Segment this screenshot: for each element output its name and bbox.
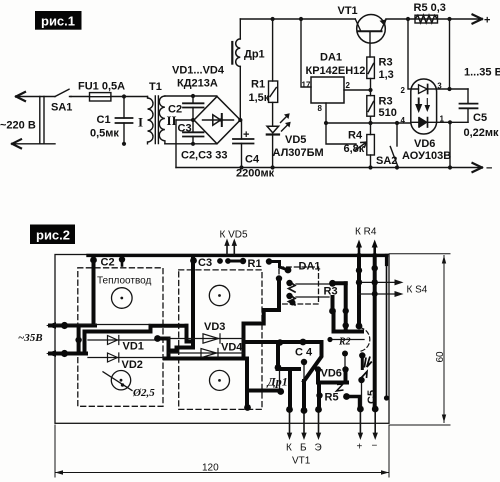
svg-text:Ø2,5: Ø2,5 bbox=[132, 387, 155, 399]
heatsink dashed outline bbox=[78, 268, 163, 407]
svg-text:2: 2 bbox=[401, 86, 406, 95]
resistor R1 bbox=[272, 19, 274, 125]
pad R2 left bbox=[327, 337, 332, 342]
thin rail row bbox=[55, 324, 150, 326]
svg-text:К S4: К S4 bbox=[407, 285, 428, 296]
pad VD6 b bbox=[342, 366, 348, 372]
svg-text:C2: C2 bbox=[168, 103, 182, 115]
trace R1 link bbox=[228, 260, 243, 263]
pad R1 right bbox=[266, 258, 272, 264]
svg-text:R1: R1 bbox=[251, 79, 265, 91]
trace Va column bbox=[357, 255, 361, 326]
pad R3 C bbox=[329, 308, 336, 315]
bottom pin arrow K bbox=[289, 412, 291, 435]
trace C5 stub bbox=[361, 356, 364, 369]
svg-text:Э: Э bbox=[315, 443, 322, 454]
output + arrow bbox=[473, 15, 483, 24]
inductor Dr1 core bar bbox=[231, 42, 233, 64]
pad R3 B bbox=[343, 308, 349, 314]
svg-text:SA2: SA2 bbox=[376, 155, 397, 167]
bridge rectifier VD1...VD4 bbox=[194, 97, 240, 144]
transistor VT1 bbox=[357, 14, 386, 43]
R2 dashed circle bbox=[360, 328, 370, 352]
pad VD6 a bbox=[315, 366, 321, 372]
svg-text:R3: R3 bbox=[379, 57, 393, 69]
capacitor C4 bbox=[241, 120, 243, 168]
svg-text:6,8к: 6,8к bbox=[344, 143, 365, 155]
wire FU1 to T1 bbox=[111, 96, 148, 98]
DA1 pin line 2 bbox=[296, 283, 333, 285]
node C2/C3/bridge-left bbox=[191, 118, 195, 122]
hole circle 4 bbox=[210, 370, 230, 390]
pad C5 mid bbox=[358, 377, 364, 383]
svg-text:АОУ103В: АОУ103В bbox=[402, 150, 451, 162]
svg-text:1: 1 bbox=[440, 115, 445, 124]
trace top edge rail bbox=[88, 254, 387, 257]
pad trace end bbox=[276, 275, 282, 281]
fig.2 title box bbox=[30, 225, 75, 245]
svg-text:VD1...VD4: VD1...VD4 bbox=[172, 65, 225, 77]
pad right col bbox=[384, 395, 389, 400]
pad corner bbox=[244, 404, 251, 411]
trace pad C stub bbox=[332, 311, 336, 332]
capacitor C3 bbox=[192, 120, 194, 144]
regulator DA1 bbox=[311, 77, 344, 103]
pad 35V top bbox=[61, 322, 68, 329]
svg-text:Теплоотвод: Теплоотвод bbox=[97, 276, 151, 287]
svg-text:VD4: VD4 bbox=[221, 342, 243, 354]
trace left link vertical bbox=[77, 326, 81, 354]
svg-text:~220 В: ~220 В bbox=[0, 120, 36, 132]
svg-text:510: 510 bbox=[379, 107, 397, 119]
svg-text:рис.1: рис.1 bbox=[41, 14, 75, 29]
arrow K R4 right bbox=[373, 245, 376, 254]
wire secondary top to bridge bbox=[165, 95, 217, 97]
resistor R3 510 bbox=[367, 96, 375, 117]
trace C4 to base pad bbox=[304, 342, 322, 411]
svg-text:1...35 В: 1...35 В bbox=[464, 67, 500, 79]
VD6 coupling arrows bbox=[417, 99, 421, 111]
trace down to bottom pad bbox=[245, 359, 249, 407]
svg-text:0,22мк: 0,22мк bbox=[464, 127, 500, 139]
svg-text:C2: C2 bbox=[101, 257, 115, 269]
svg-text:+: + bbox=[243, 129, 249, 141]
dimension 120 extension lines bbox=[55, 425, 389, 477]
svg-text:R1: R1 bbox=[248, 258, 262, 270]
svg-text:8: 8 bbox=[318, 104, 323, 113]
trace step down to bridge row bbox=[187, 326, 194, 342]
wire secondary bottom bbox=[165, 143, 176, 145]
wire top rail to pin3 bbox=[449, 19, 451, 89]
pad C4 top bbox=[300, 339, 307, 346]
switch SA2 bbox=[396, 123, 398, 146]
transformer T1 secondary winding II bbox=[159, 96, 165, 144]
wire SA1 to FU1 bbox=[71, 96, 90, 98]
pad bottom K bbox=[286, 406, 293, 413]
pad DA1 p2 bbox=[286, 280, 292, 286]
svg-text:17: 17 bbox=[302, 81, 311, 90]
svg-text:I: I bbox=[138, 115, 143, 130]
trace right inner vertical bbox=[386, 255, 388, 398]
resistor R5 bbox=[415, 15, 438, 23]
svg-text:C 4: C 4 bbox=[295, 347, 313, 359]
trace R1 right to DA1 bbox=[269, 262, 288, 271]
svg-text:0,5мк: 0,5мк bbox=[90, 128, 119, 140]
pad Dr1 bottom bbox=[277, 388, 284, 395]
DA1 pin 17 wire bbox=[301, 19, 311, 87]
node secondary/C2 bbox=[191, 94, 195, 98]
VD6 photodiode bbox=[411, 121, 437, 123]
trace lower bus H5 bbox=[165, 357, 247, 361]
capacitor C1 bbox=[123, 97, 125, 144]
transformer T1 primary winding I bbox=[148, 97, 154, 144]
scribble I bbox=[364, 357, 372, 368]
svg-text:R3: R3 bbox=[324, 286, 338, 298]
svg-text:VD3: VD3 bbox=[204, 321, 225, 333]
pad D link bbox=[344, 355, 346, 369]
pad C4 bottom bbox=[301, 359, 307, 365]
switch SA1 bbox=[55, 89, 71, 96]
trace VD6 block bbox=[318, 370, 347, 383]
fig.1 title box bbox=[35, 11, 82, 30]
bottom rail bbox=[176, 167, 479, 169]
arrow 35V bottom bbox=[46, 350, 56, 357]
K S4 line upper bbox=[359, 281, 399, 283]
pad bottom minus bbox=[372, 406, 379, 413]
diode VD1 bbox=[108, 336, 119, 345]
svg-text:T1: T1 bbox=[149, 81, 162, 93]
trace H9 collector bbox=[278, 369, 300, 410]
svg-text:DA1: DA1 bbox=[320, 52, 342, 64]
hole circle 3 with diameter slash bbox=[111, 371, 130, 390]
capacitor C2 bbox=[192, 96, 194, 120]
pad VD6 d bbox=[343, 393, 350, 400]
svg-text:FU1 0,5A: FU1 0,5A bbox=[78, 80, 125, 92]
svg-text:R5: R5 bbox=[325, 392, 339, 404]
svg-text:4: 4 bbox=[401, 116, 406, 125]
svg-text:Др1: Др1 bbox=[244, 49, 265, 61]
svg-text:VT1: VT1 bbox=[338, 5, 358, 17]
trace mid link vertical bbox=[83, 332, 87, 354]
trace 35V input top bbox=[50, 324, 95, 328]
trace top right corner bbox=[385, 255, 388, 264]
pad DA1 p3 bbox=[286, 293, 292, 299]
trace R3 top row bbox=[333, 281, 346, 285]
svg-text:2200мк: 2200мк bbox=[236, 168, 275, 180]
diode VD3 lead bbox=[169, 338, 244, 340]
svg-text:R2: R2 bbox=[338, 337, 351, 348]
scribble 1 bbox=[362, 372, 368, 379]
pad H6 left bbox=[277, 339, 283, 345]
svg-text:C5: C5 bbox=[473, 112, 487, 124]
svg-text:Др1: Др1 bbox=[267, 375, 288, 389]
mains input arrow top bbox=[16, 96, 55, 98]
svg-text:C3: C3 bbox=[198, 257, 212, 269]
svg-text:VD6: VD6 bbox=[414, 138, 435, 150]
dimension 120 line bbox=[55, 472, 389, 474]
inductor Dr1 column bbox=[239, 19, 241, 120]
mains double line bbox=[40, 97, 44, 144]
bottom pin arrow minus bbox=[374, 411, 376, 435]
svg-text:VD6: VD6 bbox=[321, 368, 342, 380]
pad bottom E bbox=[315, 406, 322, 413]
pad VD1 row bbox=[154, 335, 161, 342]
DA1 dashed outline bbox=[279, 267, 319, 304]
svg-text:К VD5: К VD5 bbox=[220, 230, 248, 241]
svg-text:+: + bbox=[484, 15, 490, 27]
svg-text:Б: Б bbox=[300, 443, 307, 454]
svg-text:КД213А: КД213А bbox=[177, 78, 218, 90]
trace emitter column bbox=[317, 383, 321, 410]
DA1 pin line 3 bbox=[296, 296, 329, 298]
trace H8 row bbox=[334, 330, 363, 334]
pad Va mid bbox=[356, 279, 362, 285]
trace 35V input bottom bbox=[50, 352, 86, 356]
K VD5 arrows bbox=[226, 243, 228, 255]
svg-text:2: 2 bbox=[346, 81, 351, 90]
thin traces and components fig.2 bbox=[55, 230, 428, 467]
trace Vb column minus rail bbox=[373, 255, 377, 409]
transformer core bbox=[155, 96, 158, 144]
pad Va top bbox=[356, 267, 362, 273]
trace H6 row bbox=[247, 340, 322, 344]
pad R3 D bbox=[343, 322, 349, 328]
output - arrow bbox=[473, 163, 483, 172]
bottom pin arrow B bbox=[303, 413, 305, 435]
capacitor C5 bbox=[467, 89, 469, 122]
svg-text:−: − bbox=[486, 163, 492, 175]
DA1 pin 8 wire bbox=[325, 103, 327, 123]
top rail bbox=[240, 18, 479, 20]
pad Va bbox=[356, 323, 363, 330]
arrow K R4 left bbox=[358, 245, 361, 254]
C4 thin link bbox=[303, 364, 305, 381]
svg-text:R5 0,3: R5 0,3 bbox=[414, 2, 446, 14]
hole circle 1 bbox=[112, 288, 133, 309]
pad DA1 p4 bbox=[290, 300, 296, 306]
pad C5 top bbox=[359, 352, 365, 358]
dimension 60 line bbox=[443, 256, 445, 423]
PCB board outline bbox=[55, 255, 389, 424]
trace C3 vertical + zigzag bbox=[169, 258, 194, 351]
pad VD6 c bbox=[316, 392, 322, 398]
pad KVD5 a bbox=[217, 258, 223, 264]
svg-text:КР142ЕН12: КР142ЕН12 bbox=[306, 65, 366, 77]
fuse FU1 bbox=[90, 93, 111, 101]
pad KVD5 b bbox=[225, 258, 231, 264]
svg-text:~35В: ~35В bbox=[18, 332, 43, 344]
trace R5 row to plus pad bbox=[347, 397, 360, 407]
svg-text:VD1: VD1 bbox=[123, 341, 144, 353]
diode VD4 bbox=[201, 349, 218, 358]
LED VD5 bbox=[267, 126, 279, 133]
svg-text:VD2: VD2 bbox=[122, 359, 143, 371]
svg-text:C1: C1 bbox=[97, 114, 111, 126]
trace R3 stub bbox=[331, 297, 335, 311]
trace C2 right pad stub bbox=[121, 260, 124, 266]
Dr1 thin link bbox=[279, 370, 281, 391]
diode VD3 bbox=[203, 334, 220, 343]
inductor Dr1 coil bbox=[236, 39, 241, 67]
dashed outline 2 bbox=[179, 270, 262, 410]
K S4 line lower bbox=[359, 293, 399, 295]
VD6 LED bbox=[419, 85, 428, 94]
trace R3 column bbox=[344, 283, 348, 331]
trace VD3/VD4 column to DA1 bbox=[244, 279, 280, 359]
node row y123 bbox=[326, 122, 411, 124]
svg-text:рис.2: рис.2 bbox=[36, 228, 70, 243]
node C3 bottom bbox=[191, 142, 195, 146]
pad Vb 3 bbox=[372, 291, 378, 297]
pad R1 left bbox=[240, 258, 246, 264]
diode VD2 bbox=[108, 353, 119, 362]
svg-text:C2,C3 33: C2,C3 33 bbox=[181, 150, 227, 162]
svg-text:3: 3 bbox=[437, 81, 442, 90]
bottom pin arrow E bbox=[318, 412, 320, 435]
wire to bridge left vertex bbox=[176, 119, 194, 121]
svg-text:VT1: VT1 bbox=[292, 456, 311, 467]
pad DA1 p1 bbox=[285, 267, 292, 274]
wire pin1 to bottom rail bbox=[449, 122, 451, 167]
C5 thin link bbox=[361, 381, 363, 406]
trace VD1 pad corner bbox=[158, 339, 169, 359]
pad 35V bottom bbox=[61, 350, 68, 357]
svg-text:К: К bbox=[286, 443, 292, 454]
VD6 pin2 wire bbox=[408, 19, 419, 89]
svg-text:C3: C3 bbox=[178, 122, 192, 134]
scribble Z bbox=[337, 384, 344, 391]
pads bbox=[61, 256, 389, 414]
R2 line bbox=[330, 339, 364, 341]
bottom pin arrow plus bbox=[359, 411, 361, 435]
svg-text:DA1: DA1 bbox=[299, 261, 321, 273]
pad bottom plus bbox=[357, 406, 364, 413]
pad C3 bbox=[190, 257, 197, 264]
wire bridge bottom row bbox=[176, 143, 217, 145]
pad left link bbox=[75, 337, 81, 343]
pad C2 left bbox=[90, 257, 97, 264]
svg-text:C4: C4 bbox=[245, 154, 260, 166]
pad D bbox=[342, 351, 348, 357]
DA1 pin zigzag 2 bbox=[289, 282, 296, 292]
svg-text:1,5к: 1,5к bbox=[249, 92, 270, 104]
svg-text:SA1: SA1 bbox=[51, 102, 72, 114]
pad Vb 1 bbox=[372, 265, 378, 271]
thick copper traces bbox=[18, 227, 387, 411]
pad Dr1 top bbox=[275, 364, 282, 371]
pad C2 right bbox=[119, 256, 125, 262]
mains input arrow bottom bbox=[12, 143, 55, 145]
diode VD2 lead bbox=[88, 357, 165, 359]
trace Dr1 stub bbox=[276, 342, 280, 368]
svg-text:АЛ307БМ: АЛ307БМ bbox=[273, 147, 324, 159]
svg-text:К R4: К R4 bbox=[355, 227, 377, 238]
svg-text:+: + bbox=[357, 442, 363, 453]
svg-text:60: 60 bbox=[435, 351, 446, 363]
VD6 pin1 wire bbox=[437, 121, 468, 123]
pad bottom B bbox=[301, 407, 308, 414]
svg-text:VD5: VD5 bbox=[285, 134, 306, 146]
DA1 pin 2 wire bbox=[344, 89, 371, 91]
trace long horizontal row bbox=[85, 326, 187, 332]
optocoupler VD6 body bbox=[411, 79, 437, 134]
VD6 pin3 wire bbox=[437, 88, 468, 90]
diode VD4 lead bbox=[169, 352, 244, 354]
svg-text:1,3: 1,3 bbox=[379, 69, 394, 81]
diode VD1 lead bbox=[88, 339, 157, 341]
dimension 60 extension lines bbox=[389, 254, 450, 425]
svg-text:C5: C5 bbox=[366, 390, 378, 404]
svg-text:R3: R3 bbox=[379, 96, 393, 108]
svg-text:−: − bbox=[372, 441, 378, 452]
pad Vb 2 bbox=[372, 279, 378, 285]
resistor R3 1,3 bbox=[367, 57, 375, 79]
DA1 pin zigzag 3 bbox=[289, 295, 296, 305]
resistor R4 variable bbox=[367, 135, 375, 156]
svg-text:120: 120 bbox=[202, 463, 219, 474]
trace C2 vertical bbox=[92, 258, 96, 326]
wire left vertical to bottom rail bbox=[175, 120, 177, 168]
svg-text:R4: R4 bbox=[348, 130, 363, 142]
fig2 text labels bbox=[101, 257, 379, 405]
hole circle 2 bbox=[209, 285, 229, 305]
trace H7 bbox=[247, 389, 281, 393]
arrow 35V top bbox=[46, 322, 56, 329]
pad R3 A bbox=[329, 280, 336, 287]
